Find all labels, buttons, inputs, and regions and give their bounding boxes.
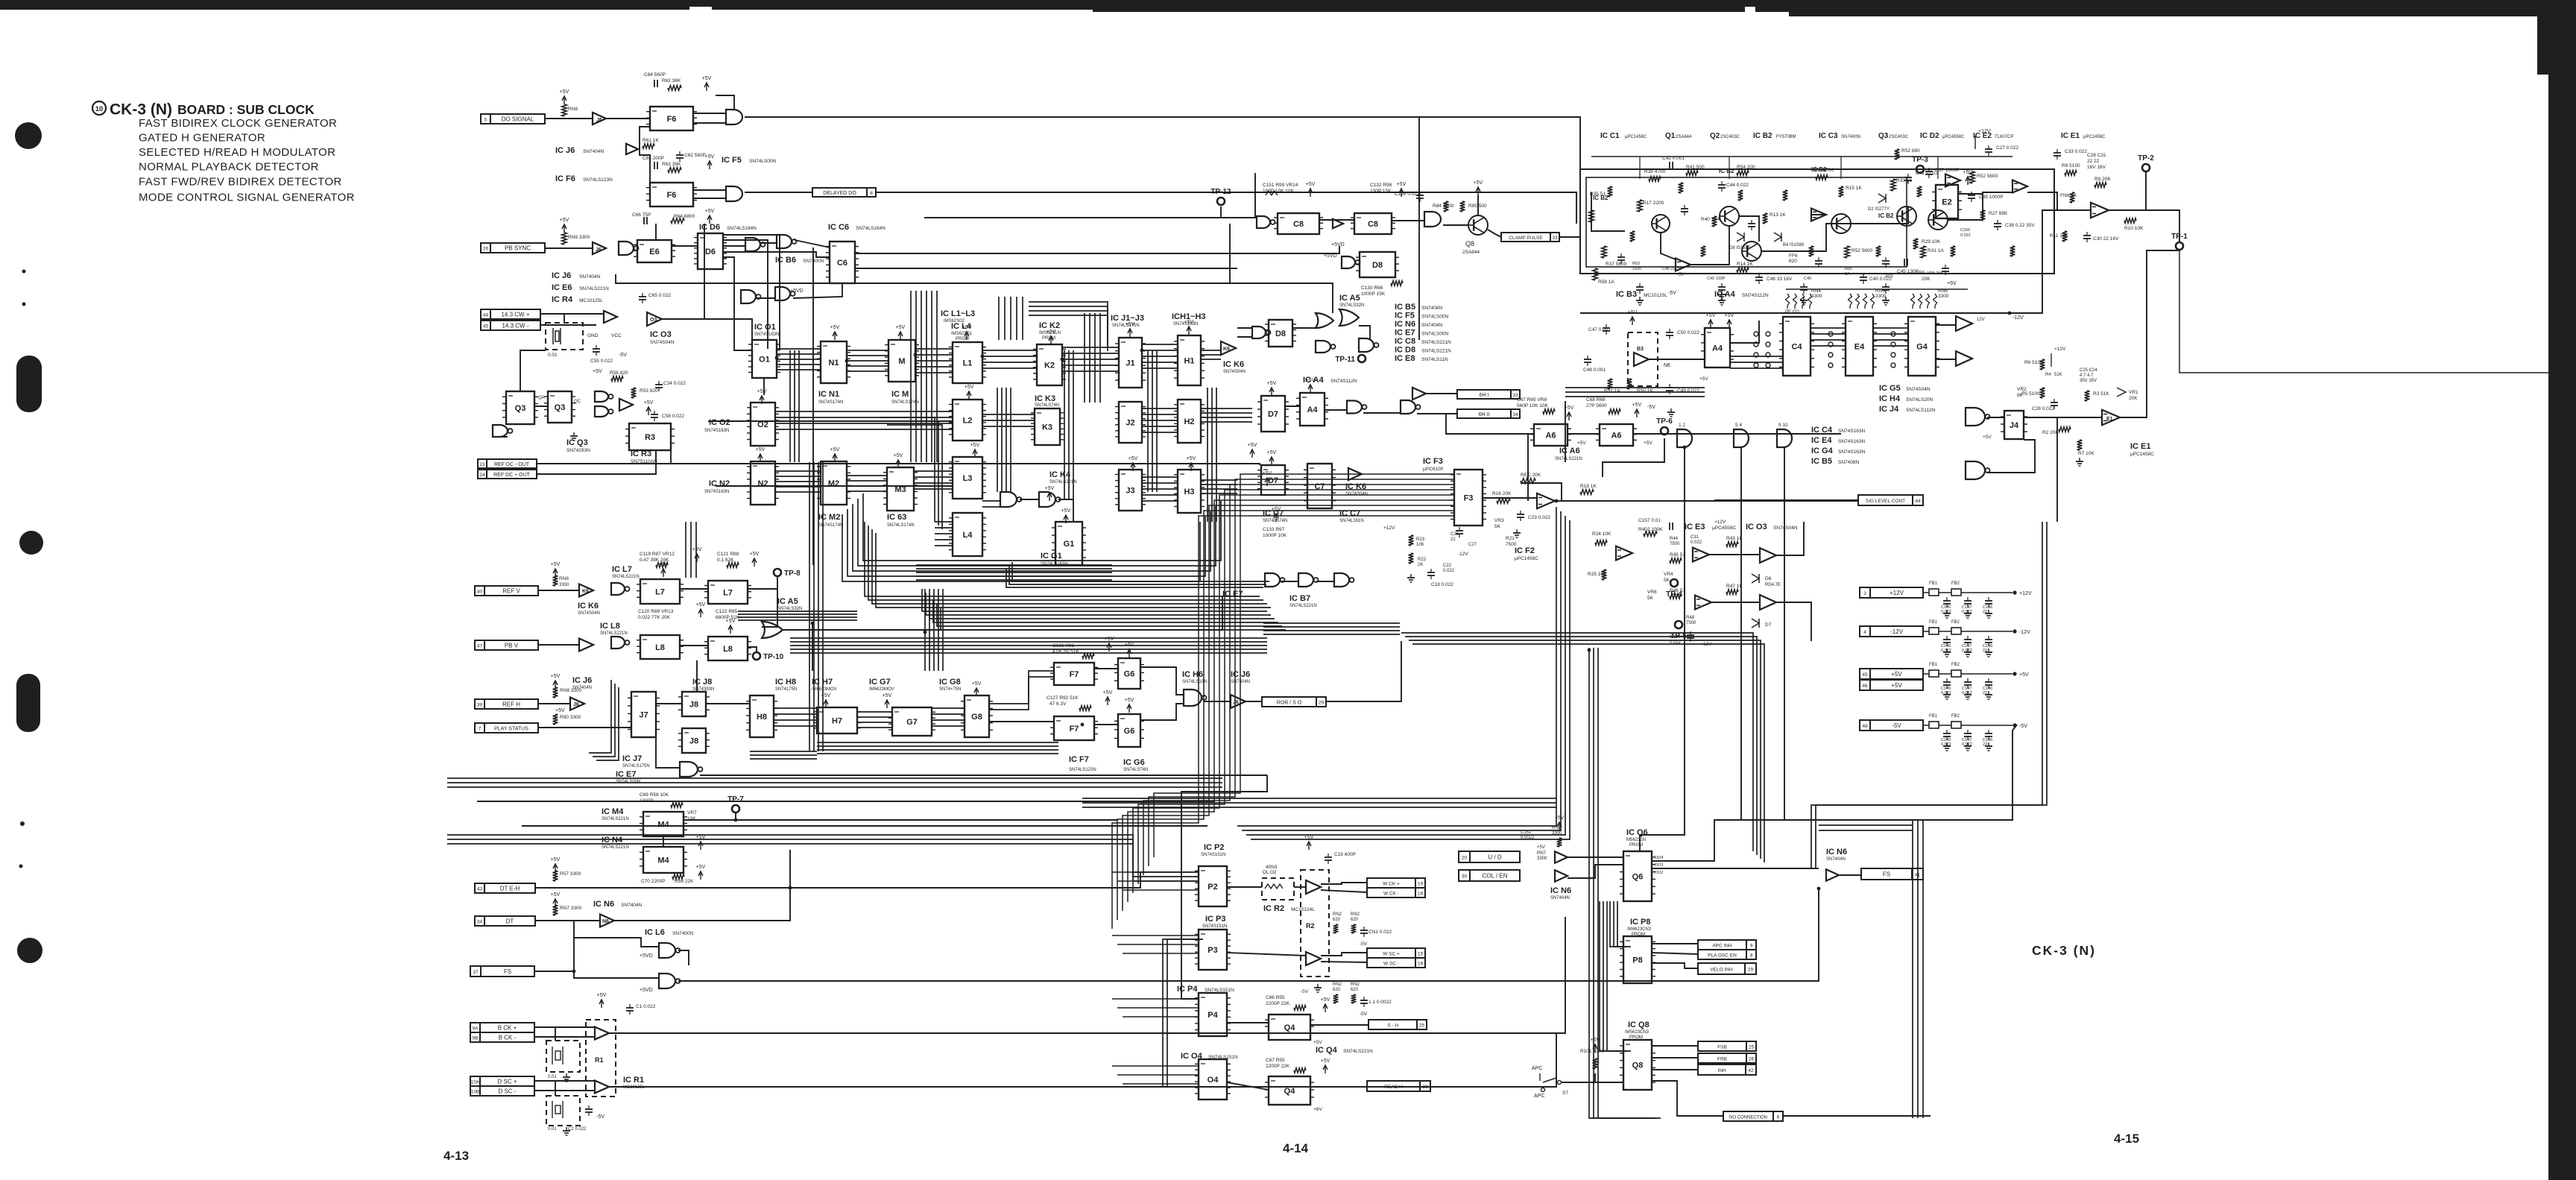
gate N4 <box>1966 408 1990 426</box>
label IC P8 <box>1630 918 1651 927</box>
svg-text:PLAY STATUS: PLAY STATUS <box>494 727 528 732</box>
connector PB V <box>475 640 538 650</box>
svg-text:SN74LS221N: SN74LS221N <box>612 575 640 579</box>
svg-text:SN74LS11N: SN74LS11N <box>1421 357 1448 362</box>
label IC B2 inner <box>1593 166 1894 219</box>
svg-text:A6: A6 <box>1611 432 1621 441</box>
wire apc-q8 <box>1561 1073 1595 1082</box>
IC K3 <box>1031 408 1064 445</box>
svg-text:IC A5: IC A5 <box>777 597 798 606</box>
svg-text:SN74S151N: SN74S151N <box>1202 924 1227 929</box>
capacitor C23 <box>1517 511 1550 521</box>
capacitor C2b <box>585 1105 593 1116</box>
svg-text:SN74LS221N: SN74LS221N <box>602 845 629 850</box>
ground q3 <box>0 0 1 1</box>
label GND VCC <box>587 333 622 338</box>
IC K2 <box>1033 344 1066 385</box>
svg-text:IC C3: IC C3 <box>1819 132 1838 140</box>
svg-text:IC N2: IC N2 <box>709 479 730 488</box>
svg-text:10A: 10A <box>471 1080 480 1085</box>
switch APC <box>1532 1066 1568 1099</box>
resistor R47 <box>1726 584 1743 594</box>
svg-text:PE CO: PE CO <box>1785 310 1799 315</box>
svg-text:0.022: 0.022 <box>1962 691 1972 695</box>
label ICG7 sub <box>869 687 894 692</box>
svg-text:B CK -: B CK - <box>499 1035 517 1041</box>
capacitor C33 <box>2053 149 2087 160</box>
svg-text:IC F2: IC F2 <box>1515 546 1535 555</box>
capacitor C64 <box>644 72 666 87</box>
svg-text:IC R1: IC R1 <box>623 1076 644 1085</box>
svg-text:C8: C8 <box>1293 220 1304 229</box>
wire l8 to j7 <box>696 660 698 692</box>
label IC A4 <box>1303 376 1357 385</box>
transistor Q3 r <box>1897 206 1916 226</box>
label -5V analog <box>1668 291 1676 296</box>
svg-text:IC B6: IC B6 <box>775 256 796 265</box>
svg-text:R62 36K: R62 36K <box>662 78 681 83</box>
label +5V a6d <box>1644 441 1652 446</box>
connector REF DC + OUT <box>478 470 537 479</box>
svg-text:P2: P2 <box>1207 883 1217 892</box>
receiver R1 b <box>595 1081 609 1094</box>
svg-text:GATED H GENERATOR: GATED H GENERATOR <box>139 132 265 145</box>
label IC P3 <box>1205 915 1226 924</box>
svg-text:SN74LS32N: SN74LS32N <box>1339 303 1364 308</box>
svg-text:S7: S7 <box>1562 1091 1568 1096</box>
resistor RN2 a <box>1333 924 1339 933</box>
components above M4 <box>640 792 669 804</box>
quad ff H8 <box>746 695 777 737</box>
svg-text:IC P8: IC P8 <box>1630 918 1651 927</box>
wire q4b-read <box>1310 1086 1367 1088</box>
wire analog int 6 <box>1851 206 1908 224</box>
svg-text:12V: 12V <box>1977 318 1985 322</box>
test point TP-5 <box>1670 621 1687 640</box>
wire c6 right long <box>855 246 1339 253</box>
wire tp12 stub <box>1220 206 1222 218</box>
wire c8b vert <box>1254 173 1256 218</box>
label ICB7 sub <box>1289 604 1317 608</box>
resistor R91 <box>1082 654 1094 659</box>
svg-text:1.1 0.0022: 1.1 0.0022 <box>1368 1000 1392 1005</box>
wire c8a-c8b <box>1319 219 1354 221</box>
wire F5 long net <box>745 117 1580 173</box>
svg-text:C65 0.022: C65 0.022 <box>648 293 671 298</box>
label IC N1 <box>818 390 839 399</box>
svg-text:-5V: -5V <box>2019 724 2027 729</box>
resistor RN8 refv <box>553 575 569 586</box>
connector DELAYED DO <box>812 188 876 197</box>
svg-text:G6: G6 <box>1124 727 1135 736</box>
svg-text:SN74S112N: SN74S112N <box>1330 379 1357 384</box>
svg-text:+5V: +5V <box>1126 322 1135 327</box>
power +5V f6b <box>705 154 715 169</box>
bus h8 bottom <box>750 751 817 759</box>
connector W SC - <box>1367 958 1425 968</box>
svg-text:IC O3: IC O3 <box>650 330 672 339</box>
gate B5 c <box>1734 429 1749 447</box>
label ICL4 sub <box>951 332 973 341</box>
crystal S1 c <box>548 1101 587 1132</box>
svg-text:SN74S163N: SN74S163N <box>704 490 729 494</box>
resistor RN2 d <box>1351 994 1357 1003</box>
wire dt out <box>614 888 790 921</box>
svg-text:+5V: +5V <box>2019 672 2029 678</box>
components r2 b <box>1333 982 1360 992</box>
resistor R29 <box>1913 239 1941 249</box>
svg-text:+5V: +5V <box>551 892 561 897</box>
components e3 top <box>1638 518 1702 546</box>
resistor R27 <box>1980 210 2008 221</box>
svg-text:DO SIGNAL: DO SIGNAL <box>502 116 534 123</box>
wire b5 to a6 <box>1417 414 1534 434</box>
power row labels +12V <box>1941 605 1992 614</box>
svg-text:SN74175N: SN74175N <box>775 687 797 692</box>
svg-text:4.7 4.7: 4.7 4.7 <box>2080 373 2094 378</box>
svg-text:H2: H2 <box>1184 417 1194 426</box>
svg-text:SN74S163N: SN74S163N <box>1838 429 1865 434</box>
capacitor C18 <box>1427 569 1453 587</box>
svg-text:3300: 3300 <box>1537 856 1547 861</box>
svg-text:+5V: +5V <box>894 453 903 458</box>
op-amp E3 a <box>1693 548 1709 562</box>
test point TP-2 <box>2138 154 2154 171</box>
svg-text:SN7400N: SN7400N <box>1841 135 1860 139</box>
svg-text:G4: G4 <box>1916 343 1928 352</box>
resistor R92 <box>1079 706 1091 711</box>
svg-text:4: 4 <box>1863 630 1866 635</box>
svg-text:0.01: 0.01 <box>548 1127 557 1132</box>
b5 pin numbers <box>1679 423 1788 428</box>
IC E4 counter <box>1842 317 1877 376</box>
power +5V do <box>560 89 569 104</box>
resistor R3b <box>2085 391 2110 401</box>
svg-text:30: 30 <box>1462 874 1468 880</box>
wire e8-q8 <box>1443 224 1468 226</box>
svg-text:VR7: VR7 <box>687 810 697 815</box>
svg-text:K6: K6 <box>1223 347 1230 352</box>
board name CK-3 (N) <box>2032 943 2096 958</box>
svg-text:C18 0.022: C18 0.022 <box>1431 582 1453 587</box>
buffer IC K6 <box>1221 341 1236 355</box>
components above A6b <box>1586 397 1607 408</box>
svg-text:IC G8: IC G8 <box>939 678 961 687</box>
svg-text:Q2: Q2 <box>1710 132 1720 140</box>
svg-text:IC M2: IC M2 <box>818 513 840 522</box>
svg-text:R17 2200: R17 2200 <box>1643 201 1664 206</box>
diode D6 <box>1752 574 1781 587</box>
IC J2 <box>1115 402 1146 443</box>
label ICM4 sub <box>602 817 629 821</box>
wire b5-6h2 <box>1418 413 1457 414</box>
svg-text:+5V: +5V <box>883 693 892 698</box>
svg-text:IM6623MOV: IM6623MOV <box>869 687 894 692</box>
IC H2 <box>1174 400 1205 443</box>
wire d6 r <box>723 257 752 350</box>
svg-text:G8: G8 <box>971 713 982 722</box>
label IC O1 sub <box>754 332 779 337</box>
label IC R3 <box>631 449 651 458</box>
monostable L8 a <box>637 635 684 659</box>
svg-text:R81: R81 <box>1845 267 1852 271</box>
wire d8 top in <box>1237 327 1252 329</box>
resistor R16 <box>1492 491 1512 503</box>
svg-text:IC Q3: IC Q3 <box>566 438 588 447</box>
wire to tp1 <box>2146 210 2179 242</box>
svg-text:0.022: 0.022 <box>1962 742 1972 747</box>
svg-text:C152: C152 <box>1521 830 1532 835</box>
receiver B3 <box>1634 353 1649 366</box>
svg-text:SN74LS221N: SN74LS221N <box>1555 457 1582 461</box>
svg-text:IC H4: IC H4 <box>1879 394 1901 403</box>
svg-text:SN74LS74N: SN74LS74N <box>1035 403 1059 408</box>
svg-text:C46 22: C46 22 <box>1662 267 1676 271</box>
power +5V m4b <box>696 865 706 880</box>
selector IC P2 <box>1195 866 1231 906</box>
resistor R6 <box>2024 359 2045 370</box>
wire q8-frb <box>1652 1057 1698 1058</box>
power +5V f7 <box>1105 637 1114 651</box>
resistor R88 <box>727 563 739 568</box>
bus f3 left to matrix <box>1263 623 1400 634</box>
label VR7 <box>687 810 697 821</box>
bus wrap right2 <box>916 565 1112 580</box>
svg-text:DO4: DO4 <box>1655 856 1663 860</box>
svg-text:4-13: 4-13 <box>443 1149 469 1163</box>
svg-text:R4: R4 <box>2045 373 2051 377</box>
connector FRB <box>1698 1053 1756 1063</box>
title line 3 <box>139 146 335 159</box>
svg-text:L7: L7 <box>655 588 665 597</box>
connector -5V <box>1860 720 1923 731</box>
bus J col vertical <box>1148 350 1157 492</box>
IC J3 <box>1115 470 1146 511</box>
capacitor C40 <box>1860 274 1892 284</box>
wire e3a out <box>1709 554 1760 555</box>
svg-text:SN74S163N: SN74S163N <box>1838 449 1865 455</box>
power +5V tex 0 <box>830 325 840 340</box>
svg-text:+5V: +5V <box>1963 170 1973 175</box>
svg-text:28: 28 <box>1422 1085 1428 1090</box>
page number 4-15 <box>2114 1132 2139 1146</box>
label IC A4 r <box>1714 290 1769 299</box>
label ICJ6o sub <box>1231 680 1250 684</box>
bus k2 top <box>1029 302 1108 351</box>
svg-text:R25 10K: R25 10K <box>1588 572 1607 577</box>
svg-text:R35 51: R35 51 <box>1590 192 1606 197</box>
power +5V g1b <box>1061 508 1071 523</box>
op-amp F2 b <box>1616 546 1632 561</box>
svg-text:+5V: +5V <box>1045 486 1055 491</box>
wire g8-f7b <box>989 721 1054 722</box>
svg-text:SN7404N: SN7404N <box>621 903 642 908</box>
wire nc feed <box>1783 1115 1931 1117</box>
svg-text:SN74S163N: SN74S163N <box>704 429 729 433</box>
svg-text:IC B2: IC B2 <box>1753 132 1772 140</box>
svg-text:+5V: +5V <box>597 993 607 998</box>
svg-text:+5V: +5V <box>1699 376 1708 382</box>
label tri K6 refv <box>582 589 589 594</box>
resistor R65 <box>1543 409 1555 414</box>
svg-text:R15 1K: R15 1K <box>1846 186 1862 191</box>
svg-text:R59 22K: R59 22K <box>675 879 694 884</box>
label ICG6 sub <box>1123 768 1148 772</box>
svg-text:IC J6: IC J6 <box>555 146 575 155</box>
svg-text:IC A6: IC A6 <box>1559 447 1580 455</box>
capacitor C37 <box>1925 168 1960 178</box>
svg-text:-5V: -5V <box>1360 941 1368 947</box>
svg-text:R61 1K: R61 1K <box>643 138 659 143</box>
ground pwr -12V 1 <box>1964 649 1972 657</box>
label ICE7m sub <box>616 780 640 784</box>
connector FS out <box>1861 868 1923 880</box>
buffer J6 out <box>1231 695 1246 708</box>
svg-text:0.022: 0.022 <box>1941 610 1951 614</box>
ground pwr +5V 2 <box>1985 691 1992 699</box>
svg-text:2200P 22K: 2200P 22K <box>1266 1064 1290 1069</box>
monostable IC F6 b <box>646 183 697 206</box>
svg-text:R402 100K: R402 100K <box>1638 527 1663 532</box>
capacitor C48 <box>1755 274 1793 284</box>
svg-text:+5V: +5V <box>551 857 561 862</box>
svg-text:IC G4: IC G4 <box>1811 447 1834 455</box>
resistor R30 <box>1813 168 1834 180</box>
bus J1 top feed <box>1085 313 1100 403</box>
svg-text:R1: R1 <box>595 1056 604 1064</box>
svg-text:3300: 3300 <box>1811 294 1822 299</box>
svg-text:FB2: FB2 <box>1951 581 1960 586</box>
wire pbv <box>538 644 579 646</box>
label IC M4 <box>602 807 624 816</box>
gate L6 b <box>659 974 681 988</box>
wire K4a-K4b <box>1020 499 1039 500</box>
connector +12V <box>1860 587 1923 598</box>
label ICH sub <box>1173 322 1198 326</box>
svg-text:IC J8: IC J8 <box>692 678 712 687</box>
monostable C8 b <box>1351 213 1395 234</box>
wire q6 out long <box>1652 868 1819 869</box>
connector REF H <box>475 699 538 709</box>
connector W CK + <box>1367 878 1425 888</box>
svg-text:23: 23 <box>479 462 485 467</box>
svg-text:C27: C27 <box>1468 543 1477 547</box>
svg-text:C4: C4 <box>1791 343 1802 352</box>
svg-text:+5V: +5V <box>750 552 760 557</box>
capacitor CN1 <box>1360 927 1392 937</box>
svg-text:J8: J8 <box>689 737 698 746</box>
resistor R66b <box>1609 409 1620 414</box>
power +5V a4r <box>1706 313 1716 328</box>
svg-text:R31 1A: R31 1A <box>1928 248 1944 253</box>
wire dt eh <box>535 850 790 888</box>
connector DT E-H <box>475 883 535 893</box>
ground under block 3 <box>1882 297 1890 305</box>
resistor analog x0 <box>1608 186 1613 197</box>
resistor R43 <box>1726 536 1743 546</box>
svg-text:IC K6: IC K6 <box>578 602 599 610</box>
wire q6 right out <box>1652 725 2017 861</box>
bus h8-h7 <box>774 708 817 726</box>
scan border right bar <box>2537 0 2576 1180</box>
wire c6 right long2 <box>855 268 1237 269</box>
wire h6-j6 <box>1204 701 1231 702</box>
transistor Q4 <box>1831 214 1851 233</box>
svg-text:C67 R55: C67 R55 <box>1266 1058 1285 1063</box>
svg-text:R56 820: R56 820 <box>610 370 628 376</box>
power +5V a4t <box>1306 378 1316 393</box>
svg-text:IC R4: IC R4 <box>552 295 573 304</box>
wire refh <box>538 703 570 704</box>
wire dsc- <box>534 1090 595 1091</box>
IC N2 <box>747 461 779 505</box>
wire n6-6h1 <box>1426 393 1457 394</box>
svg-text:A4: A4 <box>1712 344 1723 353</box>
label ICH6 sub <box>1182 680 1207 684</box>
wire g6b-h6 <box>1140 704 1184 720</box>
svg-text:SN74LS00N: SN74LS00N <box>1421 332 1448 337</box>
svg-text:PB V: PB V <box>505 643 519 649</box>
capacitor C1 <box>626 1004 656 1015</box>
bus wrap right <box>842 493 1221 581</box>
power +5V k4 <box>1045 486 1055 501</box>
svg-text:-5V: -5V <box>1301 989 1309 994</box>
label IC F6 <box>555 174 613 183</box>
IC H3 <box>1174 470 1205 513</box>
selector IC O4 <box>1195 1059 1231 1099</box>
resistor R54 <box>1737 165 1755 175</box>
connector +5V b <box>1860 680 1923 690</box>
label ICF7 sub <box>1069 768 1096 772</box>
resistor R33 <box>1891 178 1913 191</box>
svg-text:R8 5100: R8 5100 <box>2062 163 2080 168</box>
power +5V n6 <box>1555 815 1565 830</box>
svg-text:F6: F6 <box>667 191 677 200</box>
svg-text:N2: N2 <box>757 479 768 488</box>
wire fs long right <box>1818 889 1819 962</box>
power +5V r2 <box>1304 835 1314 850</box>
svg-text:IM6623CN3: IM6623CN3 <box>1627 927 1652 932</box>
label ICJ7 sub <box>622 764 650 769</box>
svg-text:+5V: +5V <box>1105 637 1114 642</box>
resistor R52 <box>1845 246 1873 258</box>
power +5V tex 9 <box>1248 443 1257 458</box>
label IC N6 col <box>1550 886 1571 895</box>
connector 6H II <box>1457 409 1520 418</box>
svg-text:+5V: +5V <box>702 76 712 81</box>
svg-text:R6 5100: R6 5100 <box>2024 360 2043 365</box>
resistor R58 <box>671 803 683 808</box>
label ICJ sub <box>1112 324 1140 328</box>
svg-text:IC D2: IC D2 <box>1920 132 1939 140</box>
label C29 C31 <box>2087 153 2106 170</box>
label ICA5 sub <box>1339 303 1364 308</box>
capacitor C58 <box>651 411 684 421</box>
wire p3-r2b <box>1227 953 1306 956</box>
wire d6 stair 2 <box>723 235 780 350</box>
svg-text:DT: DT <box>506 918 514 925</box>
svg-text:15: 15 <box>1418 952 1424 957</box>
blob speck 4 <box>19 865 23 868</box>
resistor R63 <box>662 162 681 172</box>
wire m4 out <box>684 813 736 820</box>
svg-text:+12V: +12V <box>1714 520 1726 525</box>
svg-text:20: 20 <box>1462 856 1468 861</box>
svg-text:0.022: 0.022 <box>1941 742 1951 747</box>
svg-text:46: 46 <box>1862 684 1868 689</box>
svg-text:IC Q8: IC Q8 <box>1628 1020 1650 1029</box>
svg-text:+5V: +5V <box>1103 690 1113 695</box>
